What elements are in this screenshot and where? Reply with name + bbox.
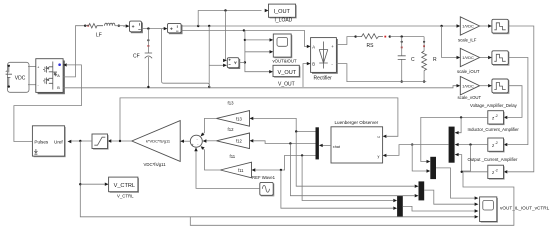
- svg-text:+: +: [192, 143, 194, 147]
- svg-text:I_OUT: I_OUT: [274, 9, 291, 15]
- wire control to observer u: [120, 98, 398, 141]
- svg-text:+: +: [37, 65, 39, 69]
- wire z1 branch to mux bar1: [455, 117, 461, 132]
- wire f12 to sum: [206, 140, 216, 142]
- sum junction: [190, 135, 202, 147]
- gain f13: [216, 101, 253, 127]
- svg-text:CF: CF: [133, 54, 140, 60]
- svg-text:RS: RS: [367, 43, 375, 49]
- mux bar3: [419, 181, 425, 200]
- node conductor tap: [243, 29, 245, 31]
- vertical tap wire down to output return: [208, 26, 210, 87]
- display block V_OUT: [273, 65, 300, 87]
- wire demux out2 to gain f12: [253, 141, 315, 144]
- arrow scope in2: [270, 50, 274, 53]
- arrow into rectifier A: [307, 45, 311, 48]
- svg-text:f12: f12: [228, 127, 235, 132]
- wire gain1 to quantizer1: [480, 25, 488, 27]
- gain scale_iLF: [458, 17, 480, 43]
- wire xhat to demux: [322, 144, 331, 146]
- svg-text:scale_vOUT: scale_vOUT: [458, 95, 482, 100]
- arrow into I_OUT display: [265, 9, 269, 12]
- arrow into scale_vOUT: [457, 84, 461, 87]
- svg-text:scale_iOUT: scale_iOUT: [457, 69, 480, 74]
- svg-text:u: u: [378, 135, 380, 139]
- svg-text:Output _Current_Amplifier: Output _Current_Amplifier: [468, 157, 518, 162]
- tap f13 down to bar3: [296, 132, 415, 187]
- gain f12: [216, 127, 253, 148]
- wire rectifier + to RS: [336, 37, 355, 45]
- svg-text:scale_iLF: scale_iLF: [458, 38, 477, 43]
- gain scale_vOUT: [458, 77, 482, 101]
- svg-text:Luenberger Observer: Luenberger Observer: [335, 120, 379, 125]
- svg-text:1/VDC: 1/VDC: [462, 83, 474, 88]
- scope vOUT_iL_iOUT_vCTRL: [475, 196, 550, 222]
- node C bottom: [401, 80, 403, 82]
- svg-text:C: C: [411, 57, 415, 63]
- gain k*VDC*fs/g11: [132, 121, 180, 167]
- arrow scope in1: [270, 38, 274, 41]
- wire z2 branch down: [462, 145, 471, 171]
- node R bottom: [423, 80, 425, 82]
- mux bar2: [430, 157, 436, 179]
- demux bar xhat: [316, 127, 319, 159]
- svg-text:1/VDC: 1/VDC: [462, 24, 474, 29]
- svg-text:V_OUT: V_OUT: [278, 81, 295, 87]
- arrow into current sensor 2: [164, 27, 168, 30]
- svg-text:k*VDC*fs/g11: k*VDC*fs/g11: [146, 138, 171, 143]
- arrow into scale_iOUT: [457, 56, 461, 59]
- arrow into scale_iLF: [457, 24, 461, 27]
- wire mux bar1 to observer y input: [386, 145, 448, 156]
- svg-text:Inductor_Current_Amplifier: Inductor_Current_Amplifier: [468, 127, 520, 132]
- iLF measurement line to scale_iLF: [180, 25, 457, 27]
- wire up to I_OUT display: [198, 11, 261, 27]
- current measurement sensor 2: [168, 23, 183, 34]
- vertical measurement bus: [245, 30, 270, 71]
- wire z2 output to mux bar1: [455, 144, 488, 146]
- wire pulses to gate g: [14, 65, 82, 142]
- wire to V_CTRL display: [80, 183, 105, 185]
- node on LF wire: [84, 25, 86, 27]
- svg-text:B: B: [312, 62, 315, 67]
- rectifier block: [311, 38, 338, 82]
- wire quantizer2 to inductor amplifier z2: [507, 58, 528, 145]
- node I_OUT line: [224, 9, 226, 11]
- wire quantizer3 to voltage amplifier z1: [507, 86, 522, 118]
- svg-text:Rectifier: Rectifier: [314, 76, 333, 82]
- wire sensor2 to rectifier A: [181, 30, 307, 46]
- display block V_CTRL: [109, 177, 139, 198]
- node RS right: [389, 35, 391, 37]
- wire gain3 to quantizer3: [480, 85, 488, 87]
- wire demux out3 to gain f11: [255, 155, 315, 170]
- delay block z3: [488, 165, 508, 179]
- svg-text:R: R: [433, 57, 437, 63]
- svg-text:LF: LF: [96, 33, 102, 39]
- inductor LF with series resistance: [85, 23, 115, 38]
- arrow into current sensor 1: [126, 24, 130, 27]
- wire VDC+ to bridge: [28, 66, 36, 68]
- tap f12 down to bar3: [290, 144, 415, 196]
- gain f11: [220, 154, 255, 178]
- svg-text:-2: -2: [495, 168, 498, 172]
- svg-text:f13: f13: [236, 116, 242, 121]
- display block I_OUT: [269, 4, 297, 23]
- svg-text:V_OUT: V_OUT: [278, 70, 297, 76]
- arrow v+: [223, 59, 227, 62]
- svg-text:V_CTRL: V_CTRL: [117, 193, 134, 198]
- svg-text:Voltage_Amplifier_Delay: Voltage_Amplifier_Delay: [470, 103, 518, 108]
- gate input arrow g: [63, 63, 67, 66]
- node CF bottom: [147, 86, 149, 88]
- wire to v- input: [209, 64, 223, 66]
- node iLF branch to scale_iOUT: [440, 25, 442, 27]
- mux bar1 for observer: [449, 127, 455, 163]
- capacitor C branch: [398, 37, 415, 82]
- delay block z1: [488, 111, 508, 125]
- svg-text:VDC: VDC: [15, 76, 26, 82]
- node at return line: [208, 86, 210, 88]
- svg-text:A: A: [312, 44, 315, 49]
- svg-text:f12: f12: [236, 139, 242, 144]
- arrow into rectifier B: [307, 62, 311, 65]
- wire bar4 out to scope in3: [403, 206, 475, 211]
- wire VDC- to bridge: [28, 84, 36, 86]
- wire f11 to sum: [201, 147, 220, 170]
- wire bridge A up to LF: [63, 26, 84, 77]
- svg-text:f11: f11: [230, 154, 236, 159]
- quantizer block 2: [492, 51, 510, 66]
- red mark RS: [384, 36, 386, 38]
- wire branch down to scale_iOUT: [442, 26, 457, 58]
- node after LF: [118, 25, 120, 27]
- wire vCTRL wrap to z3 tap: [190, 172, 514, 226]
- capacitor CF branch: [133, 29, 152, 87]
- REF Wave1 source: [252, 175, 276, 196]
- wire f11 tap to bar4: [281, 170, 394, 208]
- delay block z2: [488, 138, 508, 152]
- node f11 wire tap: [280, 169, 282, 171]
- svg-text:REF Wave1: REF Wave1: [252, 175, 276, 180]
- wire sensor1 to CF node: [142, 28, 167, 30]
- node RS left: [354, 35, 356, 37]
- mux bar4: [397, 196, 403, 217]
- tap f11 down to bar4: [302, 155, 394, 200]
- svg-text:V_CTRL: V_CTRL: [114, 183, 135, 189]
- arrow v-: [223, 64, 227, 67]
- wire quantizer1 to output amplifier z3: [507, 26, 533, 172]
- wire REF to sum: [196, 151, 260, 189]
- wire v output: [239, 61, 245, 63]
- svg-text:Uref: Uref: [54, 139, 63, 144]
- wire sensor bypass to return: [162, 29, 210, 87]
- wire bridge B to output return line: [63, 86, 456, 88]
- wire z3 output to mux bar1 input 3: [455, 155, 488, 172]
- svg-text:vOUT&iOUT: vOUT&iOUT: [273, 59, 297, 64]
- gain scale_iOUT: [457, 48, 480, 74]
- node on iLF line: [208, 25, 210, 27]
- svg-text:xhat: xhat: [333, 145, 341, 149]
- scope vOUT&iOUT: [273, 34, 297, 64]
- red mark LF: [87, 25, 89, 27]
- node iOUT to display: [197, 25, 199, 27]
- wire to scope input 2: [245, 51, 270, 53]
- wire gain2 to quantizer2: [480, 57, 488, 59]
- arrow into V_OUT display: [269, 70, 273, 73]
- wire demux out1 to gain f13: [253, 118, 315, 131]
- wire gain to saturation: [111, 140, 132, 142]
- svg-text:I_LOAD: I_LOAD: [275, 18, 293, 24]
- wire f13 to sum: [201, 118, 216, 135]
- wire to scope input 1: [245, 39, 270, 41]
- DC voltage source VDC: [5, 62, 29, 92]
- svg-text:VDC*fs/g11: VDC*fs/g11: [144, 162, 167, 167]
- wire rectifier - to load bottom: [336, 64, 426, 82]
- current measurement sensor 1: [130, 21, 143, 33]
- quantizer block 3: [492, 79, 510, 94]
- svg-text:f13: f13: [228, 101, 235, 106]
- node CF tap: [147, 27, 149, 29]
- node voltage measurement output: [244, 61, 246, 63]
- svg-text:Pulses: Pulses: [34, 139, 48, 144]
- wire RS to load: [390, 36, 424, 38]
- resistor RS: [356, 34, 383, 49]
- Luenberger Observer: [331, 120, 383, 163]
- wire z1 output to observer mux and bar2: [421, 117, 488, 161]
- voltage measurement sensor: [227, 58, 240, 69]
- node C top: [401, 35, 403, 37]
- wire saturation to Uref: [71, 140, 92, 142]
- svg-text:+: +: [5, 70, 7, 74]
- wire return riser to rectifier B: [303, 64, 307, 87]
- saturation block: [92, 134, 109, 150]
- svg-text:-2: -2: [495, 114, 498, 118]
- arrow observer u input: [383, 135, 387, 138]
- quantizer Voltage block 1: [492, 19, 510, 34]
- svg-text:-2: -2: [495, 141, 498, 145]
- wire sum to modulator gain: [184, 140, 191, 142]
- svg-text:f11: f11: [238, 168, 244, 173]
- PWM modulator block Pulses/Uref: [32, 126, 65, 157]
- wire bar3 out to scope in2: [424, 190, 475, 204]
- resistor R branch: [422, 37, 437, 82]
- wire LF to current sensor 1: [115, 25, 126, 27]
- wire bar1out tap to bar2 input 2: [411, 143, 413, 145]
- wire V_CTRL branch: [80, 141, 474, 217]
- wire down to v+ measurement: [224, 11, 226, 61]
- svg-text:vOUT_iL_iOUT_vCTRL: vOUT_iL_iOUT_vCTRL: [500, 205, 550, 210]
- svg-text:y: y: [378, 154, 380, 158]
- svg-text:1/VDC: 1/VDC: [462, 55, 474, 60]
- half-bridge converter U1: [36, 59, 65, 94]
- wire bar2 out to scope in1: [436, 168, 475, 198]
